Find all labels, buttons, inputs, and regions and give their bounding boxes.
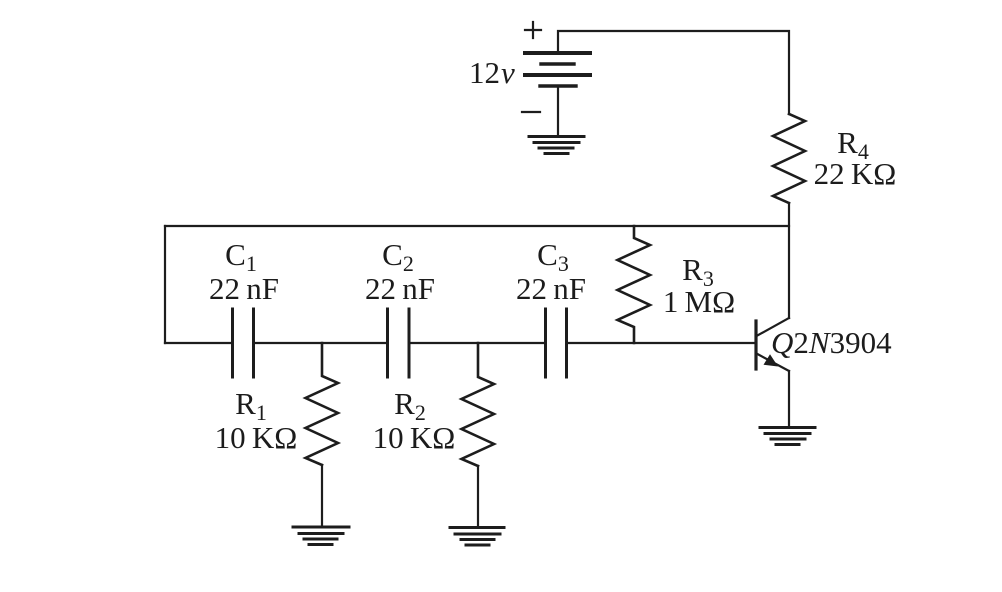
ground under battery bbox=[529, 137, 584, 154]
wire emitter to ground bbox=[788, 371, 790, 427]
label C1 bbox=[225, 237, 257, 276]
transistor Q1 base bar bbox=[754, 321, 757, 369]
label R1 value 10 KΩ bbox=[215, 420, 298, 455]
svg-text:10 KΩ: 10 KΩ bbox=[215, 420, 298, 455]
wire R2 to ground bbox=[477, 466, 479, 528]
capacitor C3 bbox=[546, 309, 567, 377]
ground under emitter bbox=[760, 428, 815, 445]
svg-text:22 nF: 22 nF bbox=[209, 271, 279, 306]
label C2 bbox=[382, 237, 414, 276]
wire R1 to ground bbox=[321, 465, 323, 527]
wire C2 to C3 with R2 junction bbox=[410, 342, 545, 344]
wire C3 to transistor base with R3 junction bbox=[568, 342, 756, 344]
wire C1 to C2 with R1 junction bbox=[255, 342, 387, 344]
wire battery negative to ground bbox=[557, 86, 559, 136]
resistor R4 bbox=[773, 114, 805, 203]
resistor R2 bbox=[462, 343, 495, 466]
svg-text:1 MΩ: 1 MΩ bbox=[663, 284, 735, 319]
label R4 bbox=[837, 125, 869, 164]
transistor Q1 collector lead bbox=[757, 318, 790, 336]
label R4 value 22 KΩ bbox=[814, 156, 897, 191]
ground under R1 bbox=[293, 527, 349, 545]
resistor R3 bbox=[618, 226, 651, 343]
wire left vertical bbox=[164, 226, 166, 343]
svg-text:10 KΩ: 10 KΩ bbox=[373, 420, 456, 455]
label transistor Q2N3904 bbox=[771, 325, 892, 360]
transistor Q1 emitter lead bbox=[757, 354, 790, 372]
label battery value 12v bbox=[469, 55, 515, 90]
wire R4 bottom down to collector node bbox=[788, 203, 790, 318]
label C1 value 22 nF bbox=[209, 271, 279, 306]
label C3 bbox=[537, 237, 569, 276]
capacitor C2 bbox=[388, 309, 410, 377]
wire battery positive terminal up and right to R4 top bbox=[558, 31, 789, 114]
battery minus terminal symbol bbox=[522, 111, 540, 113]
resistor R1 bbox=[306, 343, 339, 465]
label R2 bbox=[394, 386, 426, 425]
battery plus terminal symbol bbox=[525, 22, 541, 38]
wire top feedback rail bbox=[165, 225, 789, 227]
svg-text:12v: 12v bbox=[469, 55, 515, 90]
svg-text:Q2N3904: Q2N3904 bbox=[771, 325, 892, 360]
label R1 bbox=[235, 386, 267, 425]
svg-text:22 KΩ: 22 KΩ bbox=[814, 156, 897, 191]
svg-text:22 nF: 22 nF bbox=[365, 271, 435, 306]
label C2 value 22 nF bbox=[365, 271, 435, 306]
capacitor C1 bbox=[233, 309, 254, 377]
label R2 value 10 KΩ bbox=[373, 420, 456, 455]
ground under R2 bbox=[450, 528, 504, 546]
label C3 value 22 nF bbox=[516, 271, 586, 306]
svg-text:22 nF: 22 nF bbox=[516, 271, 586, 306]
battery V1 plates bbox=[525, 53, 590, 86]
transistor Q1 emitter arrow bbox=[764, 354, 779, 366]
label R3 bbox=[682, 252, 714, 291]
label R3 value 1 MΩ bbox=[663, 284, 735, 319]
wire rail to C1 bbox=[165, 342, 232, 344]
